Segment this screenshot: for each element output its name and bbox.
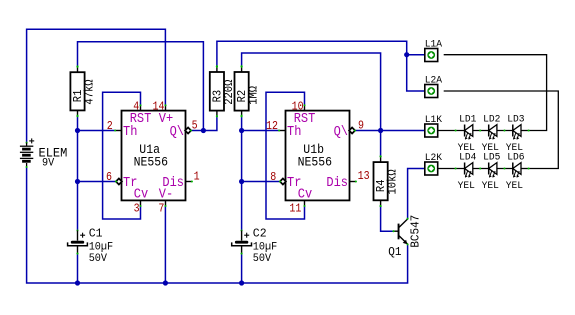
svg-text:1: 1 [194, 171, 200, 184]
capacitor C1 [68, 226, 114, 265]
resistor R4 [374, 155, 400, 207]
battery ELEM 9V [20, 138, 67, 170]
svg-text:LD3: LD3 [507, 114, 524, 126]
svg-text:9V: 9V [42, 157, 55, 170]
wire R1 top to Q output pin5 [78, 42, 204, 131]
svg-text:Cv: Cv [298, 186, 313, 202]
connector L2A [425, 75, 443, 97]
svg-text:5: 5 [192, 120, 198, 133]
U1a pin stubs [114, 104, 193, 207]
svg-text:1MΩ: 1MΩ [248, 86, 261, 105]
black wire L2K to LED row 2 [438, 168, 465, 170]
wire R2 top to Q pin9 node [242, 53, 381, 131]
svg-text:BC547: BC547 [409, 215, 423, 248]
wire RST pin4 to Cv pin3 [103, 92, 141, 219]
wire node Tr8 down to C2 [241, 182, 243, 231]
svg-text:2: 2 [107, 120, 113, 133]
svg-text:50V: 50V [89, 252, 108, 265]
svg-text:YEL: YEL [506, 181, 523, 193]
wire node down to L2A [407, 55, 425, 91]
svg-text:Cv: Cv [134, 186, 149, 202]
svg-text:V-: V- [159, 186, 173, 202]
svg-text:YEL: YEL [482, 181, 499, 193]
pin number labels U1a [106, 101, 200, 216]
wire battery+ to V+ pin14 [27, 29, 166, 142]
wire node Th12 down to Tr pin8 [242, 131, 281, 182]
svg-text:9: 9 [358, 120, 364, 133]
wire node Th down to Tr pin6 [78, 131, 117, 182]
wire R4 bottom to Q1 base [381, 206, 394, 231]
LED LD1 [458, 114, 477, 154]
connector L1K [425, 115, 443, 137]
black wire L1K to LED row 1 [438, 130, 465, 132]
wire R3 bottom to node pin5 [203, 116, 217, 130]
svg-text:47kΩ: 47kΩ [84, 79, 97, 104]
svg-text:LD6: LD6 [507, 152, 524, 164]
op-amp timer U1a box [122, 111, 186, 201]
pin junction dots green [76, 66, 529, 207]
svg-text:4: 4 [133, 101, 139, 114]
svg-text:10kΩ: 10kΩ [387, 169, 400, 194]
wire V- pin7 to ground rail [164, 206, 166, 283]
svg-text:3: 3 [134, 203, 140, 216]
resistor R2 [235, 65, 261, 117]
capacitor C2 [232, 226, 278, 265]
LED LD2 [482, 114, 501, 154]
wire RST pin10 to Cv pin11 [266, 92, 305, 219]
svg-text:Q\: Q\ [170, 123, 184, 139]
svg-text:LD5: LD5 [483, 152, 500, 164]
U1b pin stubs [278, 104, 357, 207]
svg-text:Th: Th [287, 123, 301, 139]
resistor R3 [210, 65, 236, 117]
op-amp timer U1b box [286, 111, 350, 201]
svg-text:LD1: LD1 [459, 114, 476, 126]
wire node pin9 down to R4 top [380, 131, 382, 157]
svg-text:NE556: NE556 [298, 155, 332, 170]
wire C2 bottom to ground rail [241, 254, 243, 283]
svg-text:13: 13 [358, 170, 370, 183]
svg-text:8: 8 [270, 171, 276, 184]
svg-text:11: 11 [289, 203, 301, 216]
connector L1A [425, 39, 443, 61]
black wire L1A to LD3 anode [444, 55, 547, 131]
wire R2 bottom to Th pin12 [242, 116, 280, 131]
svg-text:Th: Th [123, 123, 137, 139]
svg-text:Q\: Q\ [334, 123, 348, 139]
LED LD3 [506, 114, 525, 154]
svg-text:12: 12 [266, 120, 278, 133]
connector L2K [425, 153, 443, 175]
transistor Q1 BC547 [388, 215, 422, 259]
svg-text:6: 6 [106, 171, 112, 184]
svg-text:Dis: Dis [326, 174, 348, 190]
svg-text:LD4: LD4 [459, 152, 476, 164]
wire C1 bottom to ground rail [77, 254, 79, 283]
resistor R1 [70, 65, 96, 117]
U1b labels [287, 110, 348, 202]
svg-text:50V: 50V [253, 252, 272, 265]
svg-text:7: 7 [158, 203, 164, 216]
wire R1 bottom to Th pin2 [78, 116, 115, 131]
svg-text:C1: C1 [89, 226, 103, 241]
svg-text:C2: C2 [253, 226, 267, 241]
svg-text:NE556: NE556 [134, 155, 168, 170]
black wire L2A to LD6 anode [444, 91, 559, 169]
svg-text:10: 10 [292, 101, 304, 114]
wire node Tr down to C1 [77, 182, 79, 231]
pin number labels U1b [266, 101, 370, 216]
svg-text:YEL: YEL [458, 181, 475, 193]
LED LD6 [506, 152, 525, 192]
LED LD4 [458, 152, 477, 192]
wire Q\ pin9 to L1K [355, 130, 425, 132]
LED LD5 [482, 152, 501, 192]
U1a labels [123, 110, 184, 202]
wire ground rail from battery- to Q1 emitter [27, 167, 408, 283]
wire Q1 collector to L2K [408, 169, 425, 219]
wire Q\ pin5 stub to node [191, 130, 204, 132]
svg-text:14: 14 [153, 101, 165, 114]
svg-text:LD2: LD2 [483, 114, 500, 126]
svg-text:Q1: Q1 [388, 245, 401, 259]
wire R3 top to connector node [217, 41, 425, 66]
